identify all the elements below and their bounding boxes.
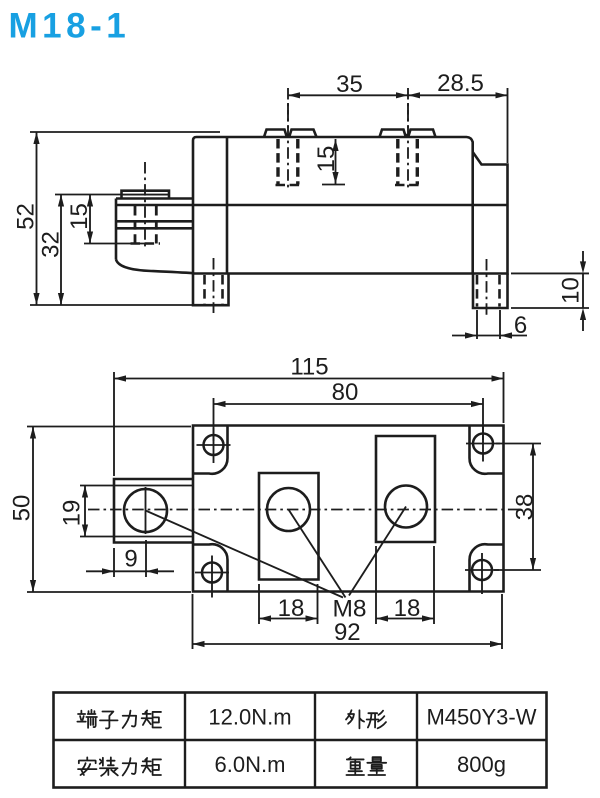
dimension 28.5: [408, 70, 508, 163]
top view: bottom-right corner recess: [469, 544, 503, 591]
svg-text:15: 15: [313, 146, 340, 173]
svg-text:M18-1: M18-1: [9, 7, 131, 46]
svg-text:800g: 800g: [457, 752, 506, 777]
dimension 50 extension lines: [27, 427, 191, 593]
side view: right mounting foot: [473, 274, 508, 309]
svg-text:18: 18: [278, 595, 305, 622]
svg-text:6.0N.m: 6.0N.m: [215, 752, 286, 777]
top view: bottom-left corner recess: [193, 544, 228, 591]
top view: body outline: [193, 426, 504, 592]
dimension 18 left extension lines: [259, 584, 318, 624]
svg-text:9: 9: [124, 546, 137, 573]
svg-text:18: 18: [394, 595, 421, 622]
dimension 15 top (terminal depth): [313, 139, 345, 185]
dimension 92: [193, 619, 503, 647]
dimension 6 extension lines: [477, 310, 500, 339]
dimension 32 extension line: [55, 194, 122, 196]
svg-text:52: 52: [13, 203, 40, 230]
svg-text:M450Y3-W: M450Y3-W: [426, 705, 536, 730]
dimension 52: [13, 132, 40, 305]
table cell: 6.0N.m: [215, 752, 286, 777]
top view: control tab outline: [114, 479, 193, 543]
side view: left top terminal bump: [264, 130, 317, 138]
svg-text:6: 6: [514, 312, 527, 339]
side view: right top terminal bump: [380, 130, 436, 138]
top view: left terminal hole: [267, 488, 310, 531]
side view: right terminal threaded hole (hidden): [395, 139, 420, 185]
top view: horizontal centerline: [88, 509, 521, 511]
side view: tab bottom curve: [116, 260, 193, 274]
svg-text:32: 32: [38, 231, 65, 258]
dimension 18 left: [259, 595, 318, 622]
top view: right terminal hole: [385, 486, 427, 528]
dimension 50: [9, 427, 37, 593]
svg-text:115: 115: [290, 354, 328, 381]
svg-text:35: 35: [336, 71, 363, 98]
dimension 18 right: [376, 595, 434, 622]
dimension 38: [512, 444, 539, 571]
svg-text:80: 80: [332, 379, 359, 406]
top view: control tab inner lines: [114, 486, 193, 537]
side view: control tab middle plate: [116, 221, 193, 228]
leader lines to M8 label: [146, 507, 407, 598]
table cell: 外形: [346, 710, 386, 728]
table row divider: [54, 739, 547, 741]
table cell: 端子力矩: [77, 710, 161, 729]
side view: left terminal centerline: [287, 103, 289, 189]
side view: left foot centerline: [213, 258, 215, 313]
side view: left foot hidden hole: [205, 275, 223, 304]
dimension 92 extension lines: [193, 594, 503, 649]
dimension 35: [288, 71, 408, 98]
dimension 9: [86, 546, 174, 575]
label M8: [332, 596, 366, 623]
dimension 6: [452, 312, 527, 339]
table cell: 12.0N.m: [208, 705, 291, 730]
svg-text:19: 19: [59, 500, 86, 527]
side view: module body outline: [193, 137, 508, 274]
dimension 10 extension lines: [511, 273, 589, 308]
dimension 19 extension lines: [80, 486, 114, 537]
side view: right foot hidden hole: [477, 275, 500, 307]
dimension 18 right extension lines: [376, 546, 434, 624]
top view: bottom-right mounting hole: [465, 553, 499, 594]
top view: right terminal pad: [376, 436, 435, 542]
dimension 115: [114, 354, 504, 382]
table cell: 安装力矩: [78, 757, 161, 775]
svg-text:10: 10: [558, 277, 585, 304]
table cell: 800g: [457, 752, 506, 777]
dimension 10: [558, 251, 587, 331]
svg-text:92: 92: [334, 619, 361, 646]
top view: top-left corner recess: [193, 426, 228, 474]
svg-text:38: 38: [512, 494, 539, 521]
top view: top-left mounting hole: [197, 428, 231, 463]
table cell: 重量: [346, 757, 386, 775]
top view: bottom-left mounting hole: [195, 556, 229, 598]
dimension 52 extension lines: [30, 132, 220, 305]
svg-text:50: 50: [9, 495, 36, 522]
side view: control tab screw head: [122, 191, 170, 199]
dimension 80 extension lines: [214, 398, 484, 441]
side view: tab screw hidden hole: [131, 206, 161, 244]
dimension 19: [59, 486, 89, 537]
dimension 38 extension lines: [494, 444, 541, 571]
side view: right foot centerline: [486, 259, 488, 318]
top view: top-right corner recess: [469, 426, 503, 474]
table cell: M450Y3-W: [426, 705, 536, 730]
svg-text:28.5: 28.5: [437, 70, 484, 97]
side view: right terminal centerline: [407, 103, 409, 189]
dimension 80: [214, 379, 484, 407]
side view: left mounting foot: [193, 274, 229, 306]
side view: case step vertical line: [226, 137, 229, 274]
top view: top-right mounting hole: [466, 427, 500, 462]
side view: lid seam line: [116, 204, 508, 207]
svg-text:15: 15: [66, 203, 93, 230]
svg-text:12.0N.m: 12.0N.m: [208, 705, 291, 730]
dimension 32: [38, 195, 65, 306]
side view: control tab top plate: [116, 199, 193, 260]
table column dividers: [185, 693, 417, 788]
dimension 115 extension lines: [114, 372, 504, 476]
top view: left terminal pad: [259, 473, 319, 580]
side view: tab screw centerline: [144, 162, 146, 247]
top view: control tab hole: [124, 487, 167, 534]
dimension 35 extension lines: [288, 88, 408, 129]
side view: left terminal threaded hole (hidden): [276, 139, 301, 185]
table outer border: [54, 693, 547, 788]
dimension 15 left (tab screw depth): [66, 195, 148, 244]
dimension 9 extension lines: [114, 540, 146, 577]
